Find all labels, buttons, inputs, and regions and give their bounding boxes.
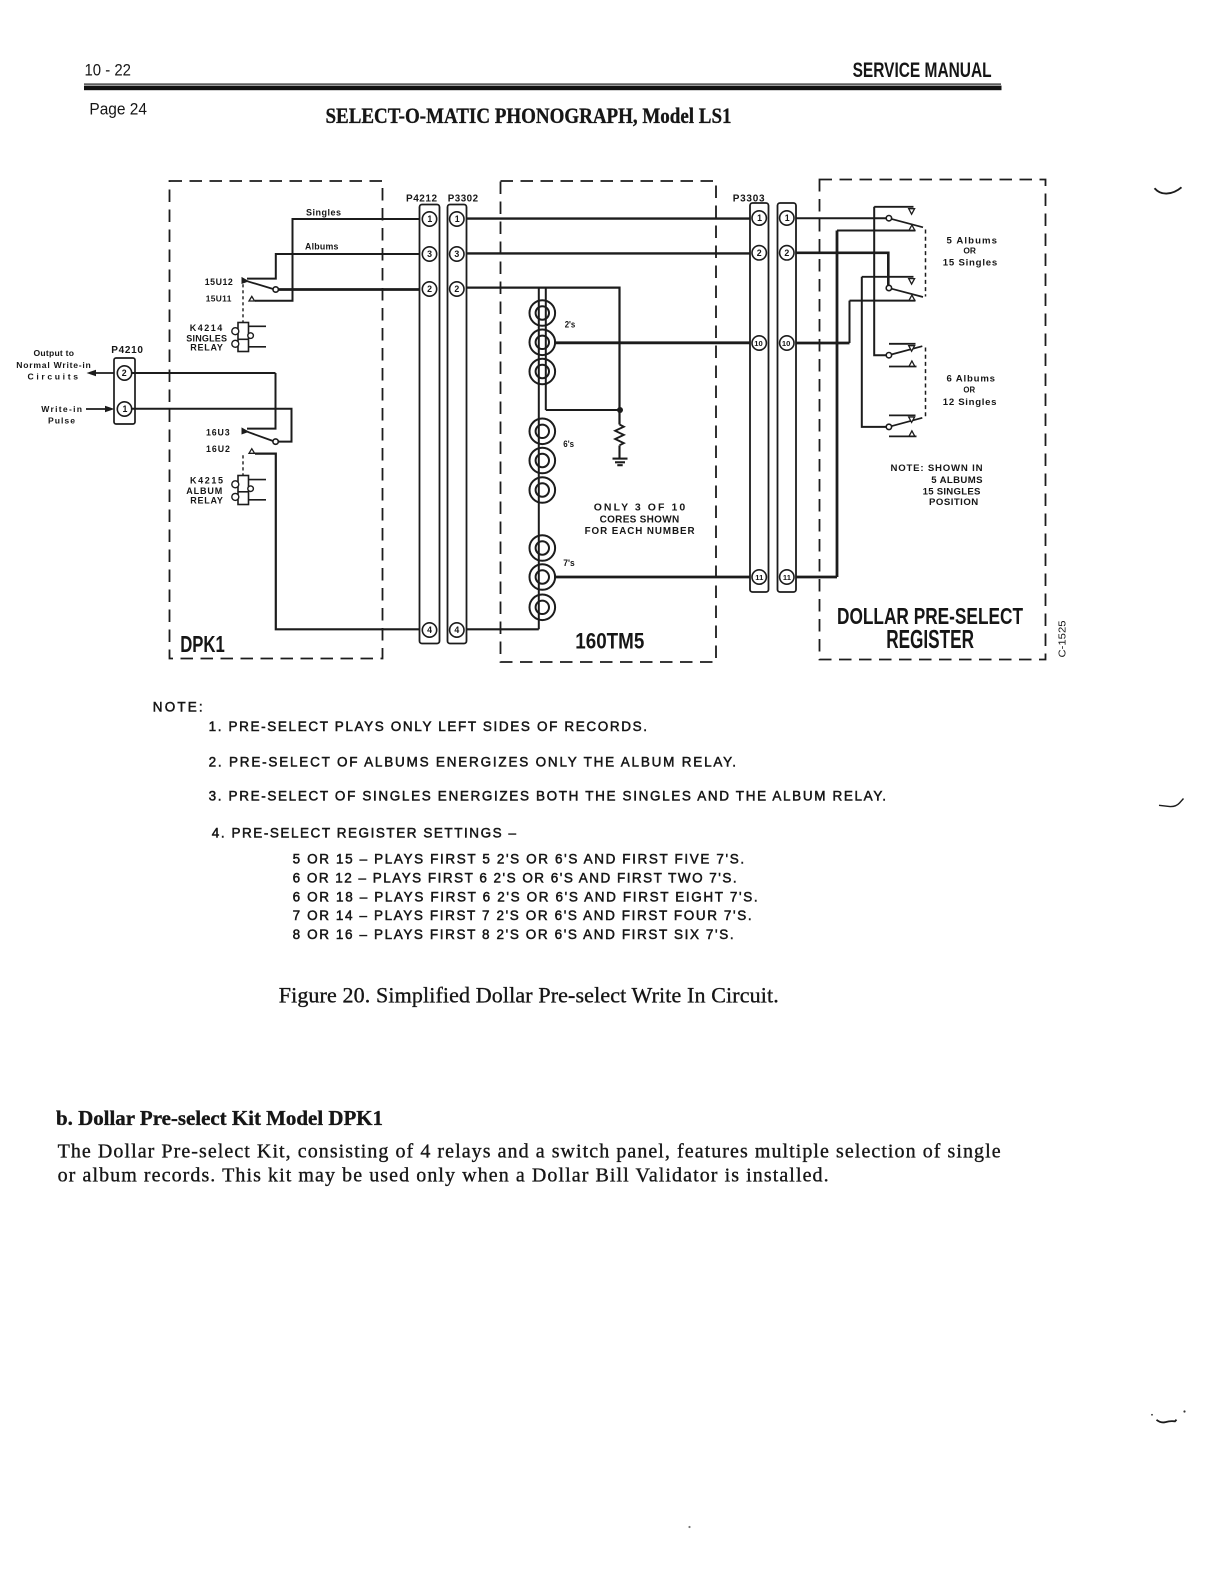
svg-text:P4212: P4212 bbox=[406, 194, 437, 205]
svg-text:RELAY: RELAY bbox=[190, 343, 223, 353]
svg-text:15 SINGLES: 15 SINGLES bbox=[923, 487, 981, 498]
svg-text:Write-in: Write-in bbox=[41, 404, 82, 414]
svg-text:1: 1 bbox=[427, 214, 432, 224]
svg-text:160TM5: 160TM5 bbox=[575, 628, 644, 653]
svg-text:ONLY 3 OF 10: ONLY 3 OF 10 bbox=[594, 501, 686, 513]
svg-text:1: 1 bbox=[455, 214, 460, 224]
svg-text:4. PRE-SELECT REGISTER SETTIN: 4. PRE-SELECT REGISTER SETTINGS – bbox=[212, 826, 517, 841]
svg-text:NOTE: SHOWN IN: NOTE: SHOWN IN bbox=[891, 463, 983, 474]
svg-text:P3303: P3303 bbox=[733, 194, 765, 205]
svg-text:b. Dollar Pre-select Kit Mode: b. Dollar Pre-select Kit Model DPK1 bbox=[56, 1106, 383, 1130]
svg-text:3. PRE-SELECT OF SINGLES ENER: 3. PRE-SELECT OF SINGLES ENERGIZES BOTH … bbox=[209, 789, 886, 804]
svg-text:2: 2 bbox=[757, 248, 762, 258]
svg-text:10 - 22: 10 - 22 bbox=[85, 61, 132, 80]
svg-text:15 Singles: 15 Singles bbox=[943, 258, 997, 269]
svg-text:1: 1 bbox=[757, 213, 762, 223]
svg-text:OR: OR bbox=[963, 385, 975, 395]
svg-text:15U11: 15U11 bbox=[206, 294, 232, 304]
svg-text:6's: 6's bbox=[563, 439, 574, 450]
svg-text:5 ALBUMS: 5 ALBUMS bbox=[931, 475, 983, 486]
svg-text:2: 2 bbox=[427, 284, 432, 294]
svg-text:2's: 2's bbox=[565, 319, 576, 330]
svg-text:CORES SHOWN: CORES SHOWN bbox=[600, 514, 680, 525]
svg-text:5 OR 15 – PLAYS FIRST 5 2'S O: 5 OR 15 – PLAYS FIRST 5 2'S OR 6'S AND F… bbox=[293, 852, 745, 867]
svg-text:15U12: 15U12 bbox=[205, 277, 233, 287]
svg-text:11: 11 bbox=[783, 573, 792, 582]
svg-text:Page 24: Page 24 bbox=[89, 100, 147, 119]
svg-text:NOTE:: NOTE: bbox=[153, 700, 203, 715]
svg-text:C-1525: C-1525 bbox=[1057, 620, 1069, 657]
svg-text:Normal Write-in: Normal Write-in bbox=[16, 360, 91, 370]
svg-text:2: 2 bbox=[122, 368, 127, 378]
svg-text:Singles: Singles bbox=[306, 208, 341, 218]
svg-text:1: 1 bbox=[785, 213, 790, 223]
svg-text:OR: OR bbox=[963, 246, 976, 256]
svg-text:SELECT-O-MATIC PHONOGRAPH, Mod: SELECT-O-MATIC PHONOGRAPH, Model LS1 bbox=[326, 103, 732, 128]
svg-text:10: 10 bbox=[754, 339, 762, 348]
svg-text:ALBUM: ALBUM bbox=[186, 486, 222, 496]
svg-text:11: 11 bbox=[755, 573, 764, 582]
svg-text:2: 2 bbox=[454, 284, 459, 294]
svg-text:12 Singles: 12 Singles bbox=[943, 397, 997, 408]
svg-text:Albums: Albums bbox=[305, 241, 338, 251]
svg-text:SERVICE MANUAL: SERVICE MANUAL bbox=[853, 58, 992, 82]
svg-text:The Dollar Pre-select Kit, con: The Dollar Pre-select Kit, consisting of… bbox=[58, 1140, 1001, 1162]
svg-text:6 OR 12 – PLAYS FIRST 6 2'S O: 6 OR 12 – PLAYS FIRST 6 2'S OR 6'S AND F… bbox=[293, 871, 737, 886]
svg-text:2. PRE-SELECT OF ALBUMS ENERG: 2. PRE-SELECT OF ALBUMS ENERGIZES ONLY T… bbox=[209, 755, 736, 770]
svg-text:16U3: 16U3 bbox=[206, 427, 230, 437]
svg-text:Pulse: Pulse bbox=[48, 415, 75, 425]
svg-text:Output to: Output to bbox=[34, 348, 75, 358]
svg-text:2: 2 bbox=[784, 248, 789, 258]
svg-text:REGISTER: REGISTER bbox=[886, 624, 974, 654]
svg-text:10: 10 bbox=[782, 339, 790, 348]
svg-text:16U2: 16U2 bbox=[206, 444, 230, 454]
svg-text:K4214: K4214 bbox=[190, 323, 223, 333]
svg-text:3: 3 bbox=[454, 249, 459, 259]
svg-text:4: 4 bbox=[454, 625, 459, 635]
svg-text:DPK1: DPK1 bbox=[180, 631, 225, 657]
svg-text:1. PRE-SELECT PLAYS ONLY LEFT: 1. PRE-SELECT PLAYS ONLY LEFT SIDES OF R… bbox=[209, 719, 647, 734]
svg-text:K4215: K4215 bbox=[190, 475, 223, 485]
svg-text:P3302: P3302 bbox=[448, 194, 479, 205]
svg-text:POSITION: POSITION bbox=[929, 497, 978, 508]
svg-text:RELAY: RELAY bbox=[190, 495, 223, 505]
svg-text:7's: 7's bbox=[563, 558, 574, 569]
svg-text:or album records. This kit ma: or album records. This kit may be used o… bbox=[58, 1165, 829, 1187]
svg-text:Figure 20. Simplified Dollar: Figure 20. Simplified Dollar Pre-select … bbox=[279, 983, 779, 1008]
svg-text:4: 4 bbox=[427, 625, 432, 635]
svg-text:FOR EACH NUMBER: FOR EACH NUMBER bbox=[585, 526, 695, 537]
svg-text:P4210: P4210 bbox=[111, 345, 143, 356]
svg-text:1: 1 bbox=[123, 404, 128, 414]
svg-text:3: 3 bbox=[427, 249, 432, 259]
svg-text:6 Albums: 6 Albums bbox=[947, 374, 996, 385]
